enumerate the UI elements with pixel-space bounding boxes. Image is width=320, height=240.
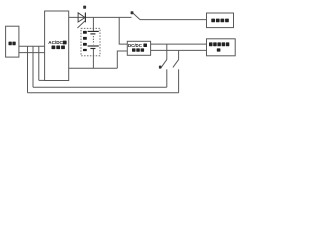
wire: switch K3 lower lead to outer bus [178,69,180,93]
battery GB plate long 2 [88,45,99,47]
wire: bypass drop 2 (x=33) [32,46,34,87]
switch K3 blade [173,60,179,68]
diode VD cathode bar [84,13,86,23]
diode VD triangle [78,13,85,22]
battery GB plate short 1 [90,33,95,35]
label text: important load line 1 char 1 [209,42,213,46]
label text: DC/DC converter line 2 char 2 [136,48,140,51]
label text: important load line 1 char 3 [217,42,221,46]
label text: vertical battery label char 3 [83,43,87,46]
svg-text:DC/DC: DC/DC [128,43,143,48]
label text: vertical battery label char 2 [83,37,87,40]
label text: mains grid (dian wang) char 1 [9,42,12,46]
battery GB omitted-cells dotted wire [92,36,94,44]
wire: DC/DC positive input drop from rail [119,17,127,44]
dashed enclosure: storage battery bank [81,28,100,56]
wire: switch K2 upper lead [166,44,168,60]
label text: AC/DC rectifier line 2 char 1 [52,46,56,50]
label text: power load box char 2 [216,19,220,23]
wire: AC line upper (grid to rectifier) [19,45,45,47]
label text: DC/DC converter line 2 char 3 [141,48,145,51]
svg-text:AC/DC: AC/DC [48,40,63,45]
block: power load box (top right) [207,13,234,28]
switch K2 blade [161,60,167,68]
wire: switch K2 lower lead to middle bus [166,69,168,87]
switch K2 label blob [159,66,162,69]
wire: bypass drop 1 (x=27.5) [27,46,29,93]
wire: positive DC rail right of switch K1 [140,19,207,21]
switch K1 blade on top rail [132,12,140,19]
wire: DC/DC positive output to load [151,43,207,45]
label text: DC/DC converter line 1 han char [143,44,147,48]
label text: power load box char 4 [225,19,229,23]
label text: AC/DC rectifier line 1 han char [63,41,67,45]
wire: battery negative lead [92,49,94,68]
block: DC/DC converter box [127,41,150,55]
label text: power load box char 1 [211,19,215,23]
block: important DC load box (right) [207,39,236,56]
switch K1 label blob [131,11,134,14]
label text: important load line 2 char [217,48,221,51]
wire: switch K3 upper lead [178,50,180,59]
label text: DC/DC converter line 2 char 1 [132,48,136,51]
block: mains grid box [6,26,19,57]
label text: power load box char 3 [221,19,225,23]
label text: AC/DC rectifier line 2 char 2 [56,46,60,50]
wire: bottom bus middle (y=87.2) [33,86,167,88]
wire: DC/DC negative input riser from bus [117,51,127,68]
wire: DC/DC negative output to load [151,49,207,51]
battery GB plate long 1 [88,30,99,32]
block: AC/DC rectifier module box [45,11,69,81]
wire: positive DC rail left of switch K1 [69,16,132,18]
label text: vertical battery label char 4 [83,49,87,51]
diode VD label [83,6,86,9]
wire: battery positive lead [92,17,94,31]
wire: bottom bus inner stub to rectifier bottom [39,79,45,81]
battery GB plate short 2 [90,48,95,50]
label text: mains grid char 2 [12,42,15,46]
label text: vertical battery label char 1 [83,31,87,34]
label text: AC/DC rectifier line 2 char 3 [61,46,65,50]
wire: AC line lower (grid to rectifier) [19,52,45,54]
wire: negative DC bus (y=68.2) [69,67,118,69]
label text: important load line 1 char 4 [222,42,226,46]
thyristor V gate lead [77,21,85,28]
label text: important load line 1 char 5 [226,42,230,46]
label text: important load line 1 char 2 [213,42,217,46]
wire: bottom bus outer (y=92.8) [28,92,179,94]
wire: drop 3 to rectifier bottom (x=38.8) [38,46,40,80]
